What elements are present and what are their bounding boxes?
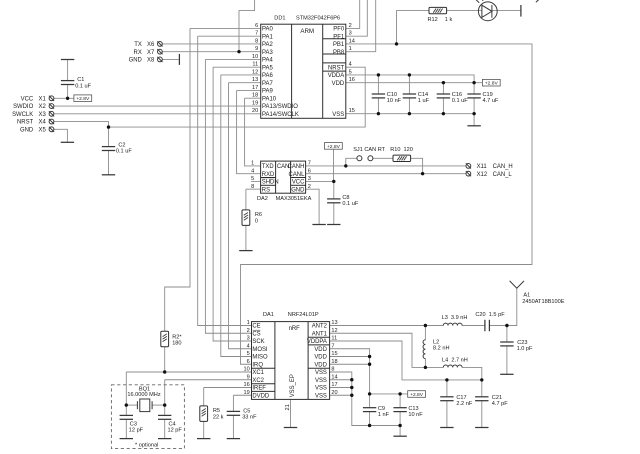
connector pin X2 — [49, 103, 54, 108]
capacitor C17 — [440, 397, 453, 401]
capacitor C21 — [475, 397, 488, 401]
svg-text:+2.8V: +2.8V — [485, 81, 499, 87]
svg-text:TX: TX — [134, 42, 142, 48]
wire SJ1 to R10 — [373, 157, 393, 159]
wire C10 top stem — [377, 75, 379, 94]
svg-text:5: 5 — [247, 351, 250, 357]
wire VCC stub — [306, 180, 334, 182]
wire IREF to R5 — [203, 388, 205, 406]
svg-text:+2.8V: +2.8V — [410, 392, 424, 398]
LED HL1 — [474, 0, 497, 21]
crystal BQ1 — [137, 399, 152, 412]
svg-text:L3 3.9 nH: L3 3.9 nH — [442, 315, 468, 321]
svg-text:13: 13 — [252, 77, 258, 83]
svg-text:PA4: PA4 — [262, 58, 273, 64]
ground R5 — [197, 438, 210, 440]
connector pin X8 — [157, 57, 162, 62]
wire C20 to antenna — [489, 288, 516, 325]
svg-text:CS: CS — [252, 331, 260, 337]
svg-text:8: 8 — [251, 184, 254, 190]
junction PA3/RX — [237, 50, 240, 53]
svg-text:R5: R5 — [213, 408, 220, 414]
svg-text:C1: C1 — [77, 77, 84, 83]
terminal bar X8 — [178, 54, 180, 65]
connector pin X3 — [49, 111, 54, 116]
wire C16 bottom stem — [442, 98, 444, 114]
capacitor C13 — [393, 408, 406, 412]
svg-text:4.7 uF: 4.7 uF — [483, 98, 499, 104]
svg-text:3: 3 — [308, 176, 311, 182]
wire GND pin to ground — [306, 189, 320, 224]
capacitor C2 — [102, 147, 115, 151]
svg-text:IREF: IREF — [252, 386, 266, 392]
wire PA10 to TXD — [245, 98, 261, 166]
svg-text:VSS_EP: VSS_EP — [290, 374, 296, 397]
svg-text:nRF: nRF — [289, 326, 301, 332]
svg-text:ARM: ARM — [300, 28, 314, 35]
svg-text:1: 1 — [251, 161, 254, 167]
inductor L3 — [443, 323, 462, 325]
svg-text:CE: CE — [252, 324, 260, 330]
wire RS stub — [246, 188, 261, 190]
svg-text:15: 15 — [349, 108, 355, 114]
wire PA9 stub — [237, 89, 261, 91]
svg-text:PF0: PF0 — [333, 27, 345, 33]
svg-text:* optional: * optional — [135, 442, 158, 448]
junction XC1/R2 — [163, 370, 166, 373]
junction VSS8/VSS14 — [350, 378, 353, 381]
svg-text:DA2: DA2 — [257, 196, 268, 202]
capacitor C1 — [61, 81, 74, 85]
wire L2 bottom stem — [424, 359, 426, 368]
power +2.8V near X1 — [74, 95, 92, 102]
junction VCC/C8 — [332, 180, 335, 183]
svg-text:1 k: 1 k — [445, 17, 453, 23]
ground C8 — [327, 224, 340, 226]
svg-text:MAX3051EKA: MAX3051EKA — [276, 196, 312, 202]
junction VSS8/VSS17 — [350, 386, 353, 389]
junction NRST/C2 — [107, 125, 110, 128]
junction ANT2/L2 — [424, 324, 427, 327]
wire C9 bottom stem — [369, 412, 371, 426]
inductor L2 — [423, 340, 425, 359]
wire PA6 stub — [221, 74, 261, 76]
svg-text:STM32F042F6P6: STM32F042F6P6 — [296, 16, 340, 22]
resistor R10 — [393, 155, 411, 161]
svg-text:GND: GND — [20, 127, 33, 133]
wire VSS_EP to ground — [290, 399, 292, 427]
wire C21 bottom stem — [481, 401, 483, 428]
wire IREF stub — [204, 387, 252, 389]
svg-text:12 pF: 12 pF — [168, 428, 183, 434]
svg-text:12 pF: 12 pF — [129, 428, 144, 434]
svg-text:2.2 nF: 2.2 nF — [456, 401, 472, 407]
wire PA5 to nRF SCK — [213, 67, 251, 341]
svg-text:RX: RX — [134, 50, 142, 56]
wire C1 bottom stem — [67, 85, 69, 99]
svg-text:18: 18 — [331, 359, 337, 365]
junction VDD7/VDD18 — [368, 363, 371, 366]
connector pin X11 — [466, 163, 471, 168]
wire SWCLK X3 to PA14 — [54, 113, 261, 115]
wire PB1 to nRF IRQ loop — [241, 44, 533, 364]
svg-text:VDD: VDD — [332, 81, 345, 87]
ground C5 — [227, 438, 240, 440]
junction VSS8/VSS20 — [350, 394, 353, 397]
svg-text:NRST: NRST — [328, 65, 345, 71]
overline CS — [253, 329, 261, 331]
wire VSS14 stub — [330, 379, 352, 381]
svg-text:11: 11 — [252, 62, 258, 68]
svg-text:VDD: VDD — [314, 347, 327, 353]
svg-text:33 nF: 33 nF — [242, 415, 257, 421]
ground C23 — [500, 373, 513, 375]
wire C10 bottom stem — [377, 98, 379, 114]
wire SWDIO X2 to PA13 — [54, 105, 261, 107]
svg-text:XC2: XC2 — [252, 378, 264, 384]
svg-text:8: 8 — [331, 367, 334, 373]
svg-text:1 nF: 1 nF — [378, 412, 390, 418]
wire C2 top stem — [108, 127, 110, 147]
capacitor C20 — [485, 320, 490, 331]
svg-text:PA13/SWDIO: PA13/SWDIO — [262, 104, 298, 110]
wire PA4 to nRF CS — [205, 59, 251, 333]
svg-text:14: 14 — [331, 374, 337, 380]
svg-text:L4 2.7 nH: L4 2.7 nH — [442, 357, 468, 363]
inductor L4 — [443, 365, 462, 367]
svg-text:19: 19 — [252, 100, 258, 106]
capacitor C14 — [403, 94, 416, 98]
svg-text:2450AT18B100E: 2450AT18B100E — [522, 299, 564, 305]
junction VDD/C9 — [368, 392, 371, 395]
wire PF0 off-page — [346, 0, 360, 28]
ground C9/C13 — [393, 435, 406, 437]
svg-text:22 k: 22 k — [213, 414, 224, 420]
svg-text:PF1: PF1 — [333, 34, 345, 40]
wire XC2 row — [165, 379, 252, 381]
wire R10 to CANL — [411, 158, 423, 173]
ground VSS_EP — [284, 427, 297, 429]
wire RS to R6 — [245, 189, 247, 210]
svg-text:DD1: DD1 — [274, 16, 285, 22]
svg-text:18: 18 — [252, 93, 258, 99]
svg-text:9: 9 — [247, 374, 250, 380]
wire VSS17 stub — [330, 387, 352, 389]
svg-text:X3: X3 — [39, 112, 47, 118]
wire C14 top stem — [408, 75, 410, 94]
capacitor C4 — [158, 415, 171, 419]
svg-text:VSS: VSS — [315, 393, 327, 399]
connector pin X7 — [157, 49, 162, 54]
wire VCC X1 to +2.8V — [54, 97, 74, 99]
wire PA0 to R2 — [165, 28, 190, 331]
wire LED to terminal — [492, 10, 521, 12]
svg-text:PA0: PA0 — [262, 27, 273, 33]
junction XTAL right — [163, 403, 166, 406]
power +2.8V nRF VDD — [408, 391, 426, 398]
svg-text:0.1 uF: 0.1 uF — [452, 98, 468, 104]
wire PA0 stub — [190, 27, 261, 29]
wire VDD rail — [346, 82, 483, 84]
svg-text:10 nF: 10 nF — [387, 98, 402, 104]
wire VDDA rail — [346, 75, 474, 83]
svg-text:PB1: PB1 — [333, 42, 345, 48]
svg-text:VDD: VDD — [314, 355, 327, 361]
wire C19 bottom stem — [473, 98, 475, 114]
svg-text:A1: A1 — [523, 292, 530, 298]
wire C13 top stem — [399, 394, 401, 408]
wire PA1 stub — [198, 35, 261, 37]
wire X4 jog — [54, 122, 109, 128]
wire DVDD stub — [233, 394, 251, 396]
svg-text:VDD: VDD — [314, 362, 327, 368]
svg-text:PA14/SWCLK: PA14/SWCLK — [262, 112, 299, 118]
svg-text:2: 2 — [308, 184, 311, 190]
wire L2 top stem — [424, 326, 426, 340]
svg-text:VSS: VSS — [315, 386, 327, 392]
svg-text:17: 17 — [331, 382, 337, 388]
connector pin X12 — [466, 171, 471, 176]
svg-text:15: 15 — [331, 351, 337, 357]
svg-text:VSS: VSS — [332, 112, 344, 118]
overline SHDN — [262, 177, 275, 179]
svg-text:PA9: PA9 — [262, 89, 273, 95]
ground C4 — [158, 438, 171, 440]
svg-text:R2*: R2* — [172, 334, 182, 340]
svg-text:4.7 pF: 4.7 pF — [492, 401, 508, 407]
svg-text:1.0 pF: 1.0 pF — [517, 346, 533, 352]
svg-text:X4: X4 — [39, 120, 47, 126]
ground C21 — [475, 427, 488, 429]
svg-text:1 uF: 1 uF — [418, 98, 430, 104]
junction CANL/R10 — [421, 172, 424, 175]
resistor R5 — [200, 406, 208, 422]
svg-text:X11: X11 — [477, 164, 488, 170]
svg-text:5: 5 — [349, 69, 352, 75]
wire C23 top stem — [506, 326, 508, 343]
svg-text:TXD: TXD — [262, 164, 274, 170]
wire C23 bottom stem — [506, 346, 508, 374]
wire RX X7 to PA3 — [162, 51, 260, 53]
svg-text:SCK: SCK — [252, 339, 264, 345]
wire R2 to XC1 node — [164, 347, 166, 372]
wire CANH to SJ1 — [346, 158, 357, 166]
connector pin X5 — [49, 127, 54, 132]
svg-text:+2.8V: +2.8V — [327, 144, 341, 150]
wire PA5 stub — [213, 66, 261, 68]
svg-text:4: 4 — [349, 62, 352, 68]
svg-text:SWDIO: SWDIO — [13, 104, 34, 110]
junction rail/C13 — [398, 392, 401, 395]
capacitor C3 — [120, 415, 133, 419]
ground C17 — [440, 427, 453, 429]
capacitor C10 — [372, 94, 385, 98]
junction VDDPA/C21 — [480, 378, 483, 381]
wire XC1 down to crystal — [125, 372, 127, 405]
svg-text:6: 6 — [247, 359, 250, 365]
svg-text:6: 6 — [255, 23, 258, 29]
wire PB1 branch to R12 — [397, 11, 430, 44]
svg-text:0.1 uF: 0.1 uF — [342, 201, 358, 207]
wire PA9 to RXD — [237, 90, 261, 173]
svg-text:IRQ: IRQ — [252, 362, 263, 368]
svg-text:PA6: PA6 — [262, 73, 273, 79]
svg-text:20: 20 — [331, 390, 337, 396]
wire PF1 off-page — [346, 0, 368, 36]
svg-text:PA7: PA7 — [262, 81, 273, 87]
wire PA1 to nRF CE — [198, 36, 252, 325]
wire C3 top stem — [125, 405, 127, 415]
wire TX X6 to PA2 — [162, 43, 260, 45]
wire VDDPA rail — [330, 341, 482, 380]
junction PB1/R12 — [395, 42, 398, 45]
svg-text:16: 16 — [243, 382, 249, 388]
wire VDD15 stub — [330, 356, 370, 358]
connector pin X1 — [49, 96, 54, 101]
svg-text:DA1: DA1 — [263, 312, 274, 318]
optional dashed box — [111, 385, 184, 449]
svg-text:C20 1.5 pF: C20 1.5 pF — [475, 312, 505, 318]
junction XTAL left — [125, 403, 128, 406]
svg-text:1: 1 — [247, 320, 250, 326]
svg-text:VCC: VCC — [292, 180, 305, 186]
svg-text:13: 13 — [331, 320, 337, 326]
wire +2.8V to VCC — [333, 149, 335, 181]
junction C20/C23/A1 — [505, 324, 508, 327]
svg-text:14: 14 — [349, 38, 355, 44]
connector pin X4 — [49, 119, 54, 124]
cut-off arrow fragment top right — [536, 0, 539, 2]
wire C5 to ground — [232, 415, 234, 438]
wire PA7 to nRF MOSI — [229, 83, 252, 349]
junction VSS/C10 — [377, 112, 380, 115]
svg-text:2: 2 — [349, 23, 352, 29]
svg-text:X2: X2 — [39, 104, 46, 110]
wire VDD to +2.8V rail — [330, 349, 408, 394]
terminal bar LED cathode net — [520, 5, 522, 17]
svg-text:0.1 uF: 0.1 uF — [75, 83, 91, 89]
svg-text:SJ1 CAN RT: SJ1 CAN RT — [353, 147, 385, 153]
svg-text:GND: GND — [291, 187, 304, 193]
junction CANH/SJ1 — [344, 164, 347, 167]
svg-text:4: 4 — [251, 168, 254, 174]
wire ANT1 to L2 bottom — [330, 333, 426, 367]
svg-text:ANT2: ANT2 — [312, 324, 327, 330]
wire C19 top stem — [473, 83, 475, 94]
ground C19/VSS — [467, 125, 480, 127]
wire R12 to LED — [447, 10, 482, 12]
svg-text:PA10: PA10 — [262, 96, 277, 102]
svg-text:R10 120: R10 120 — [390, 147, 413, 153]
capacitor C9 — [363, 408, 376, 412]
wire C21 top stem — [481, 380, 483, 397]
svg-text:10: 10 — [252, 54, 258, 60]
resistor R6 — [242, 210, 250, 226]
wire VSS rail — [346, 114, 474, 126]
wire C8 top stem — [333, 181, 335, 199]
junction gnd/C13 — [398, 424, 401, 427]
resistor R12 — [429, 7, 447, 13]
svg-text:4: 4 — [247, 343, 250, 349]
svg-text:NRST: NRST — [17, 120, 34, 126]
svg-text:NRF24L01P: NRF24L01P — [288, 312, 319, 318]
resistor R2 — [161, 331, 169, 347]
wire C16 top stem — [442, 83, 444, 94]
wire C4 top stem — [164, 405, 166, 415]
svg-text:6: 6 — [308, 168, 311, 174]
svg-text:+2.8V: +2.8V — [76, 96, 90, 102]
svg-text:CANL: CANL — [289, 172, 306, 178]
junction gnd/C9 — [368, 424, 371, 427]
wire PB8 off-page — [346, 0, 376, 52]
capacitor C16 — [437, 94, 450, 98]
svg-text:PA2: PA2 — [262, 42, 273, 48]
svg-text:X6: X6 — [147, 42, 155, 48]
svg-text:XC1: XC1 — [252, 370, 264, 376]
junction VDD7/VDD15 — [368, 355, 371, 358]
svg-text:2: 2 — [247, 328, 250, 334]
wire DVDD to C5 — [232, 395, 234, 411]
svg-text:CANH: CANH — [288, 164, 305, 170]
wire R6 to ground — [245, 225, 247, 250]
IC DA1 NRF24L01P body — [252, 322, 330, 400]
svg-text:3: 3 — [247, 336, 250, 342]
wire PA7 stub — [229, 82, 261, 84]
wire CANL to X12 — [306, 173, 466, 175]
antenna A1 — [510, 281, 524, 288]
junction VDD/C19 — [472, 81, 475, 84]
junction VDDA/C14 — [408, 73, 411, 76]
IC U DD1 STM32F042F6P6 body — [261, 24, 346, 118]
wire C4 bottom stem — [164, 419, 166, 438]
ground DA2 GND — [312, 224, 325, 226]
wire C17 top stem — [446, 380, 448, 397]
wire PA10 stub — [245, 97, 261, 99]
svg-text:X1: X1 — [39, 96, 47, 102]
capacitor C19 — [467, 94, 480, 98]
svg-text:MISO: MISO — [252, 355, 268, 361]
wire PA6 to nRF MISO — [221, 75, 252, 357]
svg-text:DVDD: DVDD — [252, 393, 269, 399]
svg-text:R12: R12 — [428, 17, 438, 23]
svg-text:3: 3 — [349, 31, 352, 37]
svg-text:VSS: VSS — [315, 370, 327, 376]
capacitor C23 — [500, 342, 513, 346]
wire crystal left lead — [126, 404, 137, 406]
junction L2/L4 — [424, 366, 427, 369]
svg-text:PA3: PA3 — [262, 50, 273, 56]
IC DA2 MAX3051EKA body — [261, 161, 306, 193]
svg-text:CAN_L: CAN_L — [493, 172, 513, 178]
wire L4 right wire — [462, 367, 482, 380]
solder jumper SJ1 — [357, 156, 373, 161]
svg-text:21: 21 — [285, 404, 291, 410]
wire C3 bottom stem — [125, 419, 127, 438]
svg-text:7: 7 — [331, 343, 334, 349]
svg-text:PA1: PA1 — [262, 34, 273, 40]
terminal bar C1 top — [61, 59, 74, 61]
svg-text:12: 12 — [252, 69, 258, 75]
svg-text:R6: R6 — [255, 212, 262, 218]
junction VSS/C16 — [442, 112, 445, 115]
junction X1/C1 — [66, 97, 69, 100]
ground C3 — [120, 438, 133, 440]
wire VSS chain to ground — [330, 372, 401, 436]
svg-text:180: 180 — [172, 341, 181, 347]
wire R5 to ground — [203, 421, 205, 438]
svg-text:11: 11 — [331, 336, 337, 342]
svg-text:X7: X7 — [147, 50, 154, 56]
